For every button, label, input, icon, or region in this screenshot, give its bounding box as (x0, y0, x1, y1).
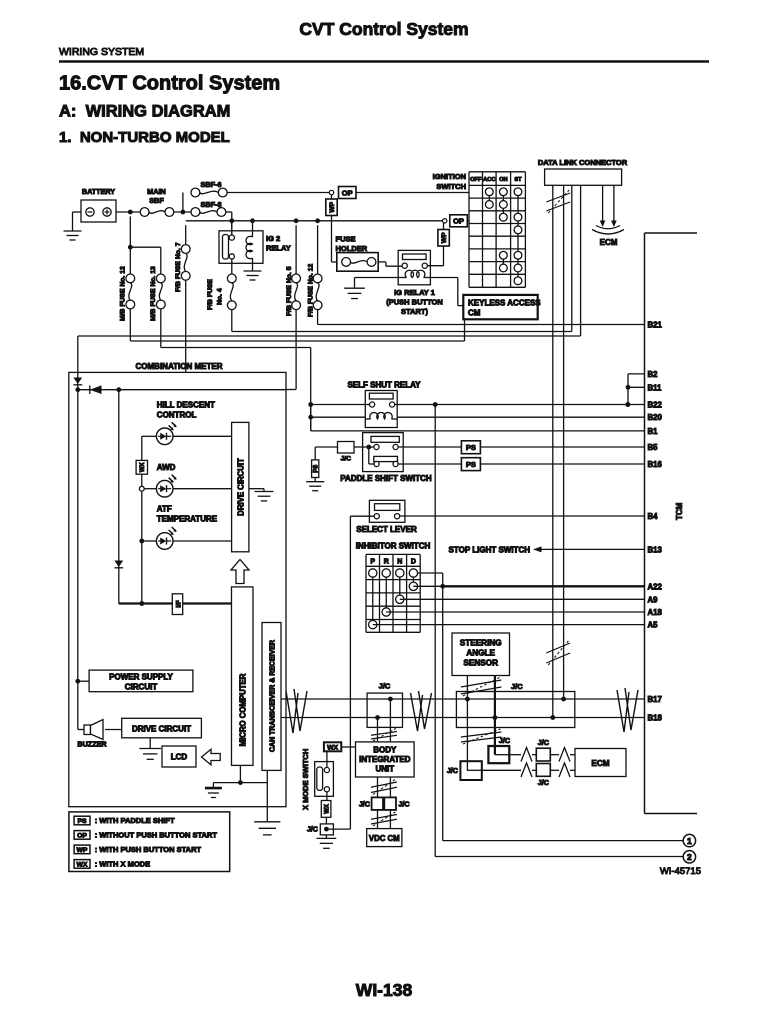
svg-text:CVT Control System: CVT Control System (299, 19, 468, 39)
svg-text:J/C: J/C (398, 800, 409, 809)
svg-text:F/B FUSE No. 5: F/B FUSE No. 5 (286, 266, 293, 316)
svg-text:A22: A22 (648, 582, 663, 591)
svg-text:R: R (384, 559, 389, 566)
svg-text:VDC CM: VDC CM (369, 834, 400, 843)
svg-text:B20: B20 (648, 413, 663, 422)
svg-text:WIRING SYSTEM: WIRING SYSTEM (59, 46, 144, 58)
svg-text:SBF: SBF (149, 196, 164, 205)
svg-text:J/C: J/C (499, 736, 510, 745)
svg-text:INHIBITOR SWITCH: INHIBITOR SWITCH (356, 542, 431, 551)
svg-text:WX: WX (77, 861, 88, 868)
svg-text:B22: B22 (648, 401, 663, 410)
svg-text:WX: WX (140, 462, 146, 472)
svg-text:IG RELAY 1: IG RELAY 1 (394, 288, 435, 297)
svg-text:DATA LINK CONNECTOR: DATA LINK CONNECTOR (538, 158, 628, 167)
svg-text:WP: WP (77, 847, 88, 854)
svg-text:OP: OP (77, 832, 87, 839)
svg-text:B11: B11 (648, 383, 663, 392)
svg-text:CIRCUIT: CIRCUIT (125, 683, 158, 692)
svg-text:B21: B21 (648, 321, 663, 330)
svg-text:INTEGRATED: INTEGRATED (359, 755, 411, 764)
svg-text:OP: OP (342, 188, 353, 197)
svg-text:WI-45715: WI-45715 (660, 866, 701, 877)
svg-text:PS: PS (466, 460, 476, 469)
svg-text:P: P (370, 559, 375, 566)
svg-text:MAIN: MAIN (147, 187, 166, 196)
svg-text:A9: A9 (648, 595, 659, 604)
svg-text:D: D (411, 559, 416, 566)
svg-text:SENSOR: SENSOR (463, 659, 498, 668)
svg-text:B16: B16 (648, 460, 663, 469)
svg-text:POWER SUPPLY: POWER SUPPLY (109, 673, 173, 682)
svg-text:AWD: AWD (157, 463, 176, 472)
svg-text:B1: B1 (648, 427, 659, 436)
svg-text:16.CVT Control System: 16.CVT Control System (59, 73, 280, 95)
svg-text:FUSE: FUSE (336, 235, 356, 244)
svg-text:START): START) (401, 307, 428, 316)
svg-text:F/B FUSE: F/B FUSE (207, 279, 214, 310)
svg-text:J/C: J/C (341, 455, 352, 462)
svg-text:A18: A18 (648, 608, 663, 617)
svg-text:PS: PS (314, 465, 320, 473)
svg-text:No. 4: No. 4 (217, 288, 224, 305)
svg-text:OP: OP (453, 217, 464, 226)
svg-text:ON: ON (499, 177, 508, 183)
svg-text:(PUSH BUTTON: (PUSH BUTTON (386, 298, 443, 307)
svg-text:B17: B17 (648, 695, 662, 704)
svg-text:J/C: J/C (307, 825, 318, 834)
svg-text:DRIVE CIRCUIT: DRIVE CIRCUIT (132, 725, 191, 734)
svg-text:CAN TRANSCEIVER & RECEIVER: CAN TRANSCEIVER & RECEIVER (270, 640, 277, 752)
svg-text:A: WIRING DIAGRAM: A: WIRING DIAGRAM (59, 103, 230, 121)
svg-text:A5: A5 (648, 621, 659, 630)
svg-text:: WITH PADDLE SHIFT: : WITH PADDLE SHIFT (95, 816, 175, 825)
svg-text:ECM: ECM (591, 759, 609, 768)
svg-text:I/F: I/F (175, 600, 182, 607)
svg-text:PS: PS (77, 818, 87, 825)
svg-text:PADDLE SHIFT SWITCH: PADDLE SHIFT SWITCH (340, 474, 432, 483)
svg-text:HOLDER: HOLDER (336, 244, 368, 253)
svg-text:B4: B4 (648, 512, 659, 521)
svg-text:BATTERY: BATTERY (82, 187, 115, 196)
svg-text:ACC: ACC (483, 177, 495, 183)
svg-text:: WITHOUT PUSH BUTTON START: : WITHOUT PUSH BUTTON START (95, 831, 218, 840)
svg-text:2: 2 (687, 852, 692, 862)
svg-text:CM: CM (468, 309, 481, 318)
svg-text:COMBINATION METER: COMBINATION METER (136, 362, 223, 371)
svg-text:SELECT LEVER: SELECT LEVER (356, 525, 417, 534)
svg-text:CONTROL: CONTROL (157, 411, 197, 420)
svg-text:WI-138: WI-138 (356, 980, 413, 1000)
svg-text:WX: WX (327, 745, 338, 752)
svg-text:STOP LIGHT SWITCH: STOP LIGHT SWITCH (449, 545, 531, 554)
svg-text:HILL DESCENT: HILL DESCENT (157, 401, 215, 410)
svg-text:WP: WP (441, 232, 448, 243)
svg-text:M/B FUSE No. 12: M/B FUSE No. 12 (120, 266, 127, 321)
svg-text:: WITH PUSH BUTTON START: : WITH PUSH BUTTON START (95, 845, 202, 854)
svg-text:1: 1 (687, 836, 692, 846)
svg-text:J/C: J/C (447, 766, 458, 775)
svg-text:STEERING: STEERING (460, 639, 502, 648)
svg-text:ATF: ATF (157, 505, 172, 514)
svg-text:B2: B2 (648, 370, 659, 379)
svg-text:ANGLE: ANGLE (466, 649, 495, 658)
svg-text:B5: B5 (648, 443, 659, 452)
svg-text:B18: B18 (648, 714, 663, 723)
svg-text:ST: ST (514, 177, 522, 183)
svg-text:X MODE SWITCH: X MODE SWITCH (301, 749, 310, 810)
svg-text:DRIVE CIRCUIT: DRIVE CIRCUIT (237, 458, 246, 516)
svg-text:F/B FUSE No. 7: F/B FUSE No. 7 (175, 242, 182, 292)
svg-text:J/C: J/C (538, 778, 549, 787)
svg-text:UNIT: UNIT (375, 765, 394, 774)
svg-text:M/B FUSE No. 13: M/B FUSE No. 13 (150, 266, 157, 321)
svg-text:F/B FUSE No. 12: F/B FUSE No. 12 (308, 264, 315, 317)
svg-text:RELAY: RELAY (266, 244, 291, 253)
svg-text:MICRO COMPUTER: MICRO COMPUTER (239, 673, 248, 746)
svg-text:: WITH X MODE: : WITH X MODE (95, 860, 150, 869)
svg-text:LCD: LCD (171, 753, 188, 762)
svg-text:J/C: J/C (359, 800, 370, 809)
svg-text:BODY: BODY (373, 746, 397, 755)
svg-text:IG 2: IG 2 (266, 234, 280, 243)
svg-text:SWITCH: SWITCH (436, 182, 466, 191)
svg-text:SBF-6: SBF-6 (200, 180, 221, 189)
svg-text:PS: PS (466, 443, 476, 452)
svg-text:J/C: J/C (511, 682, 523, 691)
svg-text:IGNITION: IGNITION (433, 172, 466, 181)
svg-text:TCM: TCM (675, 502, 684, 520)
svg-text:TEMPERATURE: TEMPERATURE (157, 515, 218, 524)
svg-text:J/C: J/C (538, 738, 549, 747)
svg-text:KEYLESS ACCESS: KEYLESS ACCESS (468, 299, 541, 308)
svg-text:BUZZER: BUZZER (77, 740, 107, 749)
svg-text:B13: B13 (648, 545, 663, 554)
svg-text:N: N (397, 559, 402, 566)
svg-text:WX: WX (324, 804, 330, 814)
svg-text:J/C: J/C (379, 682, 391, 691)
svg-text:ECM: ECM (600, 238, 618, 247)
svg-text:WP: WP (329, 201, 336, 212)
svg-text:OFF: OFF (470, 177, 482, 183)
svg-text:SBF-8: SBF-8 (200, 200, 221, 209)
svg-text:1. NON-TURBO MODEL: 1. NON-TURBO MODEL (59, 129, 230, 146)
svg-text:SELF SHUT RELAY: SELF SHUT RELAY (347, 381, 421, 390)
